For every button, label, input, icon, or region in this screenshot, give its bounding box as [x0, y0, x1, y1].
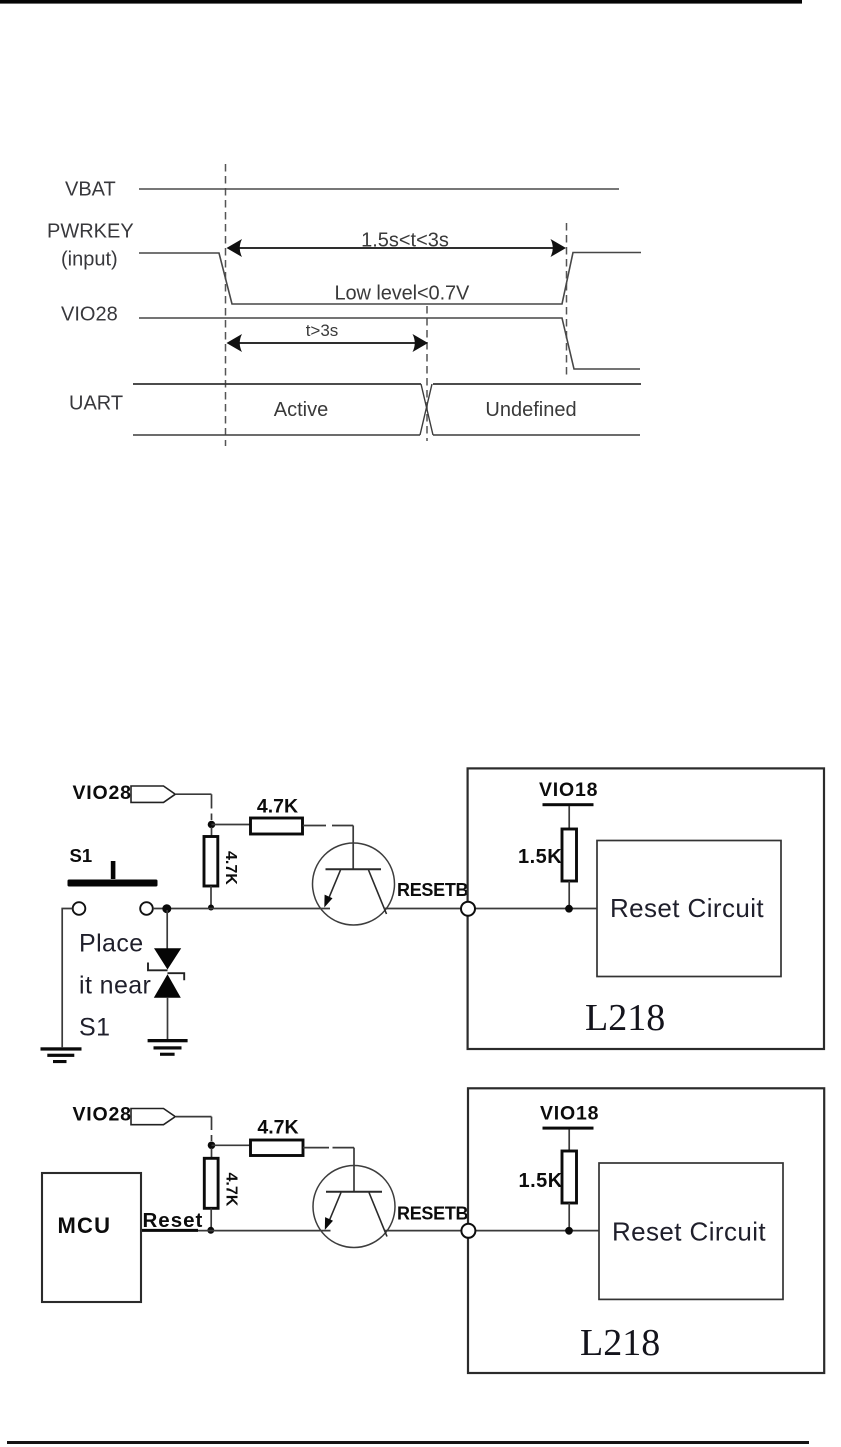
junction dot node D [208, 1142, 216, 1150]
wire VIO18 to R3 [568, 806, 570, 829]
label RESETB [397, 880, 469, 900]
label R1 4.7K [257, 796, 298, 818]
power rail bar VIO18 [543, 803, 594, 806]
svg-text:VIO28: VIO28 [73, 1104, 132, 1126]
UART crossover [420, 384, 433, 435]
signal label UART [69, 393, 123, 415]
wire R1 to Q1 base [303, 826, 353, 869]
label Low level<0.7V [335, 283, 471, 305]
arrow 1.5s t 3s [227, 239, 567, 257]
wire D1 to ground [167, 998, 169, 1039]
Reset Circuit box [597, 841, 781, 977]
resistor R1 4.7K horizontal [251, 818, 303, 834]
label 1.5s<t<3s [361, 230, 449, 252]
junction dot node B [162, 904, 171, 913]
svg-text:S1: S1 [70, 845, 93, 866]
resistor R4 4.7K horizontal [251, 1140, 304, 1156]
signal label (input) [61, 249, 118, 271]
svg-text:4.7K: 4.7K [222, 851, 239, 885]
svg-text:S1: S1 [79, 1014, 110, 1042]
Reset Circuit box c2 [599, 1163, 783, 1299]
svg-text:1.5s<t<3s: 1.5s<t<3s [361, 230, 449, 252]
label L218 c2 [580, 1322, 660, 1364]
label 1.5K c2 [519, 1170, 563, 1192]
wire node A down to R2 [211, 827, 213, 837]
wire MCU to Q2 emitter [142, 1229, 331, 1231]
TVS diode D1 upper triangle [154, 948, 181, 969]
wire node A to R1 [212, 824, 251, 826]
svg-text:4.7K: 4.7K [257, 796, 298, 818]
svg-text:VBAT: VBAT [65, 179, 116, 201]
net label VIO28 [73, 782, 132, 804]
junction dot node C [565, 905, 573, 913]
svg-text:Low level<0.7V: Low level<0.7V [335, 283, 471, 305]
switch S1 contact left [73, 902, 86, 915]
wire R3 to rail [568, 881, 570, 906]
svg-text:(input): (input) [61, 249, 118, 271]
label R2 4.7K rotated [222, 851, 239, 885]
resistor R3 1.5K [562, 829, 577, 881]
wire Q2 collector to module pin [385, 1230, 599, 1232]
label R5 4.7K rotated [223, 1173, 240, 1207]
ground G2 [148, 1039, 188, 1056]
svg-text:Active: Active [274, 399, 328, 421]
wire R5 to rail [210, 1208, 212, 1229]
wire node D to R4 [212, 1144, 251, 1146]
signal label VIO28 [61, 304, 118, 326]
pin node circle RESETB c2 [461, 1224, 475, 1238]
svg-text:RESETB: RESETB [397, 880, 469, 900]
label L218 [585, 997, 665, 1039]
power label VIO18 c2 [540, 1103, 599, 1125]
switch S1 contact right [140, 902, 153, 915]
net label VIO28 c2 [73, 1104, 132, 1126]
MCU box [42, 1173, 141, 1302]
svg-text:1.5K: 1.5K [519, 1170, 563, 1192]
wire node D down to R5 [211, 1148, 213, 1158]
svg-text:Place: Place [79, 930, 144, 958]
switch S1 actuator [111, 861, 116, 879]
power rail bar VIO18 c2 [543, 1127, 594, 1130]
junction dot node E [565, 1227, 573, 1235]
net flag VIO28 [131, 786, 175, 802]
TVS diode D1 lower triangle [154, 974, 181, 998]
VBAT signal line [139, 188, 619, 190]
junction dot R5 rail [207, 1227, 214, 1234]
label MCU [58, 1213, 112, 1238]
svg-text:VIO18: VIO18 [540, 1103, 599, 1125]
wire R6 to rail [568, 1203, 570, 1228]
wire R4 to Q2 base [303, 1148, 354, 1191]
module box L218 [468, 768, 824, 1049]
timing dashed line t1 [426, 306, 428, 441]
arrow t>3s [227, 334, 429, 352]
VIO28 signal line [139, 318, 640, 369]
label t>3s [306, 321, 339, 340]
svg-text:1.5K: 1.5K [518, 846, 562, 868]
UART bus top line [133, 383, 641, 385]
transistor Q2 [313, 1166, 395, 1248]
module box L218 c2 [468, 1088, 824, 1373]
net flag VIO28 c2 [131, 1109, 175, 1125]
svg-text:VIO28: VIO28 [73, 782, 132, 804]
wire VIO28 flag to node D [176, 1117, 212, 1141]
switch S1 label [70, 845, 93, 866]
wire S1 left contact to ground [62, 909, 72, 1048]
power label VIO18 [539, 779, 598, 801]
svg-text:it near: it near [79, 972, 151, 1000]
label Reset Circuit c2 [612, 1217, 766, 1247]
junction R2 rail [208, 905, 214, 911]
wire rail S1 to Q1 emitter [153, 908, 330, 910]
wire Q1 collector to module pin [384, 908, 597, 910]
resistor R5 4.7K vertical [204, 1158, 218, 1208]
svg-text:Undefined: Undefined [485, 399, 576, 421]
junction dot node A [208, 821, 216, 829]
label R4 4.7K [257, 1117, 298, 1139]
wire VIO28 flag to node A [176, 794, 212, 820]
signal label PWRKEY [47, 221, 134, 243]
svg-text:VIO18: VIO18 [539, 779, 598, 801]
label Reset [143, 1209, 204, 1232]
header rule [0, 0, 802, 4]
pin node circle RESETB [461, 902, 475, 916]
label Undefined [485, 399, 576, 421]
svg-text:4.7K: 4.7K [257, 1117, 298, 1139]
svg-text:RESETB: RESETB [397, 1204, 469, 1224]
UART bus bottom line [133, 434, 640, 436]
TVS diode D1 bar [148, 963, 184, 981]
PWRKEY signal line [139, 253, 641, 305]
timing dashed line t2 [566, 223, 568, 378]
timing dashed line t0 [225, 164, 227, 446]
svg-text:Reset: Reset [143, 1209, 204, 1232]
label Active [274, 399, 328, 421]
svg-text:VIO28: VIO28 [61, 304, 118, 326]
ground G1 [41, 1047, 82, 1063]
label Reset Circuit [610, 893, 764, 923]
note Place it near S1 [79, 930, 151, 1042]
resistor R6 1.5K [562, 1151, 577, 1203]
wire R2 to rail [210, 886, 212, 906]
signal label VBAT [65, 179, 116, 201]
svg-text:L218: L218 [585, 997, 665, 1039]
wire node B down to D1 [166, 910, 168, 949]
label RESETB c2 [397, 1204, 469, 1224]
resistor R2 4.7K vertical [204, 837, 218, 887]
switch S1 bar [68, 880, 158, 887]
svg-text:4.7K: 4.7K [223, 1173, 240, 1207]
transistor Q1 [313, 843, 395, 925]
svg-text:Reset Circuit: Reset Circuit [610, 893, 764, 923]
svg-text:PWRKEY: PWRKEY [47, 221, 134, 243]
wire VIO18 to R6 [568, 1130, 570, 1152]
label 1.5K [518, 846, 562, 868]
svg-text:L218: L218 [580, 1322, 660, 1364]
svg-text:t>3s: t>3s [306, 321, 339, 340]
svg-text:MCU: MCU [58, 1213, 112, 1238]
svg-text:Reset Circuit: Reset Circuit [612, 1217, 766, 1247]
footer rule [7, 1441, 809, 1444]
svg-text:UART: UART [69, 393, 123, 415]
